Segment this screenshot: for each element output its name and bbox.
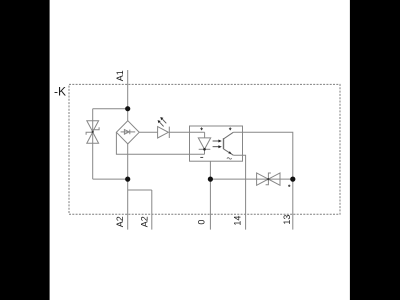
wire terminal 13 vertical — [292, 179, 294, 230]
wire node A1 to TVS F1 — [93, 108, 128, 110]
U1 internal LED — [198, 138, 210, 149]
wire bridge minus rail to U1 LED cathode — [116, 132, 204, 154]
TVS diode F1 (bidirectional suppressor, input side) — [86, 121, 99, 144]
wire TVS F1 center vertical — [92, 109, 94, 179]
optocoupler U1 body — [190, 126, 243, 161]
svg-text:-K: -K — [54, 85, 66, 99]
U1 phototransistor Q1 — [224, 132, 234, 155]
wire diamond bottom to node A2 and terminal A2 — [127, 144, 129, 230]
junction node 0 — [208, 177, 213, 182]
svg-text:A2: A2 — [115, 216, 125, 227]
wire U1 emitter out to terminal 14 — [233, 155, 245, 229]
TVS diode F2 (bidirectional suppressor, output side) — [257, 173, 280, 185]
pin mark + (U1 input) — [200, 127, 203, 130]
pin mark + (U1 collector) — [229, 127, 232, 130]
wire U1 LED cathode drop — [204, 149, 206, 154]
junction U1 LED cathode — [203, 148, 206, 151]
wire TVS F1 bottom to node A2 — [93, 178, 128, 180]
svg-text:13: 13 — [282, 215, 292, 225]
svg-text:A2: A2 — [139, 216, 149, 227]
LED H1 (indicator with emission arrows) — [158, 127, 170, 138]
bridge rectifier V1 (diamond) — [116, 121, 139, 144]
wire output bus node 0 to node 13 — [210, 178, 292, 180]
junction node A1 — [125, 106, 130, 111]
svg-text:14: 14 — [232, 216, 242, 226]
wire A2 branch horizontal — [128, 189, 152, 191]
wire LED H1 cathode to optocoupler U1 — [169, 131, 204, 133]
polarity mark + at node 13 — [288, 185, 290, 187]
svg-text:A1: A1 — [115, 70, 125, 81]
wire second terminal A2 vertical — [151, 190, 153, 230]
pin mark - (U1 input return) — [200, 156, 203, 158]
wire U1 bottom pin to node 0 — [209, 161, 211, 179]
wire U1 collector out to node 13 vertical — [233, 132, 292, 179]
wire U1 LED anode drop — [204, 132, 206, 138]
wire terminal 0 vertical — [209, 179, 211, 230]
Q1 AC mark (tilde) — [227, 158, 232, 160]
U1 photon coupling arrows — [213, 140, 222, 149]
junction node 13 — [290, 177, 295, 182]
junction node A2 — [125, 177, 130, 182]
Q1 emitter arrowhead — [228, 151, 231, 154]
wire A1 terminal vertical — [127, 70, 129, 121]
module outline -K (dashed boundary) — [69, 84, 340, 214]
wire bridge plus output to LED H1 — [139, 131, 157, 133]
svg-text:0: 0 — [196, 220, 206, 225]
